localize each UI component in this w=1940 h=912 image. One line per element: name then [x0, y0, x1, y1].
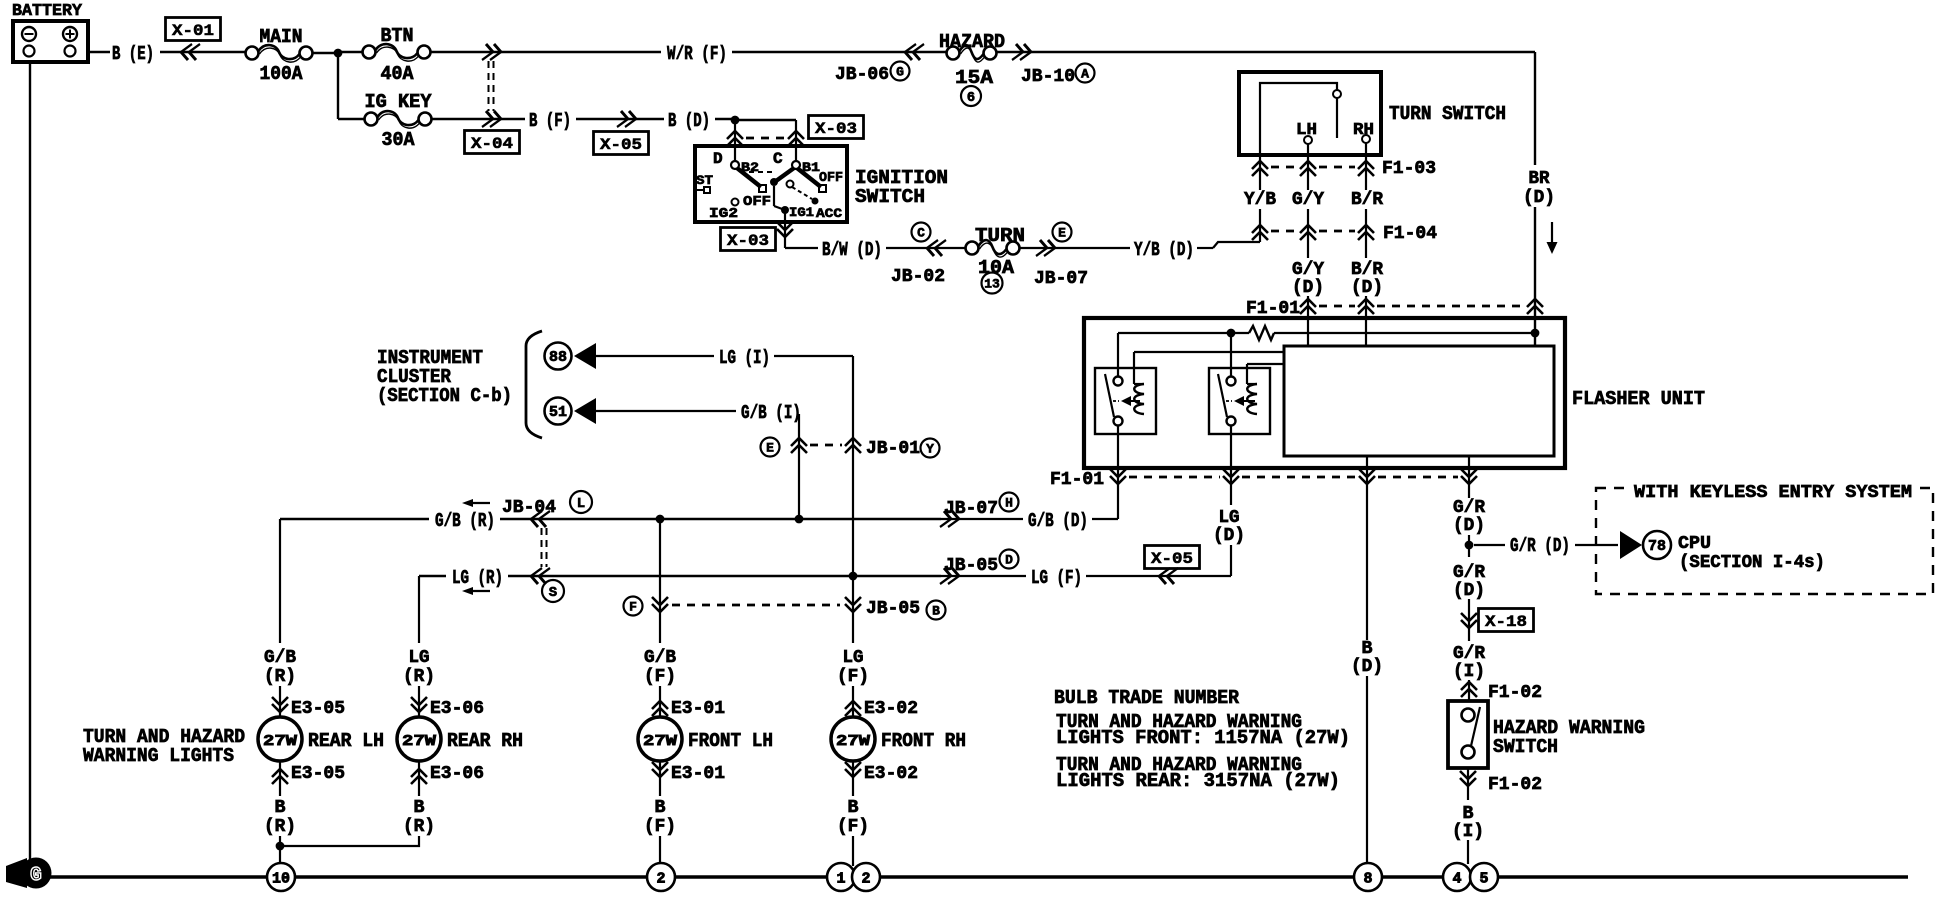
wire LG (R) run	[419, 567, 941, 589]
connector F1-02 bottom	[1460, 768, 1542, 800]
wire labels Y/B G/Y B/R	[1244, 190, 1383, 258]
wire junction to ignition switch pins	[735, 120, 796, 146]
svg-text:(SECTION I-4s): (SECTION I-4s)	[1679, 552, 1825, 573]
svg-text:JB-10: JB-10	[1021, 66, 1075, 87]
svg-text:E3-01: E3-01	[671, 763, 725, 784]
ground point 4	[1443, 863, 1471, 891]
svg-text:IG2: IG2	[709, 206, 738, 222]
connector E3-06 top	[411, 686, 484, 719]
svg-text:2: 2	[656, 870, 665, 887]
wire G/R (D) to CPU	[1474, 535, 1618, 557]
svg-text:F1-02: F1-02	[1488, 682, 1542, 703]
svg-text:27W: 27W	[643, 733, 677, 750]
bulb REAR RH 27W	[397, 717, 523, 761]
svg-text:F1-01: F1-01	[1246, 298, 1300, 319]
svg-text:SWITCH: SWITCH	[1493, 736, 1558, 758]
svg-text:6: 6	[967, 90, 975, 106]
bulb FRONT RH 27W	[831, 717, 966, 761]
svg-text:G/Y: G/Y	[1292, 190, 1324, 210]
wire LG (I)	[596, 347, 853, 574]
svg-text:G/R: G/R	[1453, 563, 1485, 583]
svg-text:E: E	[1058, 226, 1066, 241]
svg-text:100A: 100A	[260, 63, 304, 85]
svg-text:G/R: G/R	[1453, 644, 1485, 664]
svg-text:B (F): B (F)	[529, 110, 571, 132]
svg-text:JB-04: JB-04	[502, 497, 556, 518]
svg-text:(F): (F)	[837, 667, 869, 687]
svg-text:IG KEY: IG KEY	[365, 91, 433, 113]
svg-text:ACC: ACC	[816, 206, 842, 221]
svg-text:(SECTION C-b): (SECTION C-b)	[377, 385, 512, 407]
turn switch S1	[1239, 72, 1381, 155]
cluster pin 51 turn indicator	[545, 398, 597, 425]
circled 6	[961, 86, 981, 106]
svg-text:S: S	[549, 585, 557, 601]
connector X-05	[594, 111, 649, 155]
connector JB-01 E Y	[761, 438, 940, 460]
svg-text:A: A	[1081, 67, 1089, 82]
svg-text:40A: 40A	[381, 63, 415, 85]
svg-text:(R): (R)	[264, 817, 296, 837]
svg-text:LIGHTS REAR: 3157NA (27W): LIGHTS REAR: 3157NA (27W)	[1056, 770, 1340, 792]
wire relay K2 output	[1230, 425, 1232, 505]
ground point 2 front RH	[852, 863, 880, 891]
svg-text:OFF: OFF	[819, 170, 843, 186]
svg-text:88: 88	[549, 349, 567, 366]
wire B lead of REAR LH	[279, 786, 281, 796]
connector E3-02 top	[845, 686, 918, 719]
svg-text:FLASHER UNIT: FLASHER UNIT	[1572, 388, 1705, 410]
svg-text:X-01: X-01	[172, 22, 214, 40]
svg-text:BATTERY: BATTERY	[12, 2, 83, 21]
svg-text:B: B	[932, 604, 940, 619]
svg-text:Y/B (D): Y/B (D)	[1134, 239, 1194, 261]
connector E3-02 bottom	[845, 761, 918, 786]
fuse TURN 10A	[966, 225, 1026, 279]
instrument cluster bracket	[526, 331, 542, 438]
svg-text:1: 1	[836, 870, 845, 887]
wire B (F) front RH	[837, 798, 869, 866]
svg-text:D: D	[713, 150, 723, 168]
wire relay K1 output	[1117, 425, 1119, 519]
svg-text:(D): (D)	[1453, 516, 1485, 536]
svg-text:FRONT RH: FRONT RH	[881, 730, 966, 752]
connector X-01	[166, 18, 221, 61]
svg-text:4: 4	[1452, 870, 1461, 887]
svg-text:X-05: X-05	[1151, 550, 1193, 568]
svg-text:WITH KEYLESS ENTRY SYSTEM: WITH KEYLESS ENTRY SYSTEM	[1634, 482, 1912, 503]
connector X-18	[1461, 609, 1534, 632]
fuse IG KEY 30A	[365, 91, 433, 151]
svg-text:JB-05: JB-05	[944, 555, 998, 576]
svg-text:E3-06: E3-06	[430, 698, 484, 719]
svg-text:E3-02: E3-02	[864, 698, 918, 719]
svg-text:D: D	[1005, 553, 1013, 568]
svg-text:F1-03: F1-03	[1382, 158, 1436, 179]
svg-text:W/R (F): W/R (F)	[667, 43, 727, 65]
svg-text:F1-02: F1-02	[1488, 774, 1542, 795]
svg-text:27W: 27W	[836, 733, 870, 750]
wire BR (D)	[1523, 52, 1555, 346]
svg-text:C: C	[917, 226, 925, 241]
flasher unit U2	[1084, 318, 1565, 468]
connector X-04	[465, 44, 520, 154]
svg-text:G: G	[896, 65, 904, 80]
wire G/B (I)	[596, 402, 801, 517]
svg-text:JB-01: JB-01	[866, 438, 920, 459]
connector JB-10 A	[1012, 44, 1094, 87]
svg-text:B (D): B (D)	[668, 110, 710, 132]
svg-text:B: B	[848, 798, 859, 818]
connector E3-05 top	[272, 686, 345, 719]
svg-text:TURN: TURN	[975, 225, 1025, 247]
keyless entry dashed box	[1596, 482, 1933, 594]
wire MAIN to junction	[312, 52, 337, 54]
wire G/B (R) run	[280, 510, 941, 532]
svg-text:G/B: G/B	[644, 648, 676, 668]
ground G	[6, 858, 52, 889]
svg-text:CPU: CPU	[1678, 533, 1711, 554]
svg-text:(R): (R)	[403, 817, 435, 837]
svg-text:LG: LG	[1219, 508, 1240, 528]
node ignition feed junction	[731, 116, 740, 125]
wire flasher outputs to bottom	[1367, 456, 1469, 640]
svg-text:BTN: BTN	[381, 25, 414, 47]
connector JB-04 L	[462, 491, 592, 567]
svg-text:(R): (R)	[403, 667, 435, 687]
svg-text:E3-02: E3-02	[864, 763, 918, 784]
wire to IG KEY fuse	[338, 53, 364, 119]
relay K1 coil feed	[1134, 351, 1284, 353]
bulb trade number note	[1054, 687, 1350, 792]
connector E3-01 top	[652, 686, 725, 719]
svg-text:E3-05: E3-05	[291, 763, 345, 784]
ignition switch label	[855, 167, 948, 208]
svg-text:LG (R): LG (R)	[452, 567, 503, 589]
ground point 2 front LH	[647, 863, 675, 891]
connector X-05 right	[1145, 546, 1200, 585]
battery	[12, 2, 88, 62]
wire Y/B (D)	[1019, 239, 1260, 261]
wire G/B (R) drop	[264, 519, 296, 687]
connector JB-07 H	[940, 493, 1018, 528]
svg-text:(F): (F)	[644, 667, 676, 687]
svg-text:X-03: X-03	[727, 232, 769, 250]
svg-text:B: B	[1362, 639, 1373, 659]
connector JB-06 G	[835, 44, 924, 85]
svg-text:B: B	[414, 798, 425, 818]
flasher control module box	[1284, 346, 1554, 456]
CPU pin 78	[1620, 531, 1825, 573]
connector F1-04	[1252, 223, 1437, 244]
connector JB-02 C	[891, 223, 946, 288]
wire B (I)	[1452, 804, 1484, 864]
wire G/R (D) flasher output	[1453, 498, 1485, 545]
svg-text:E3-06: E3-06	[430, 763, 484, 784]
connector F1-01 top	[1246, 298, 1543, 319]
svg-text:5: 5	[1479, 870, 1488, 887]
flasher internal feed line	[1118, 329, 1539, 377]
svg-text:(D): (D)	[1351, 278, 1383, 298]
svg-text:Y: Y	[926, 442, 934, 457]
circled 13	[982, 273, 1003, 294]
connector E3-01 bottom	[652, 761, 725, 786]
svg-text:G/Y: G/Y	[1292, 260, 1324, 280]
wire junction to BTN fuse	[338, 51, 362, 53]
wire B (R) rear RH joins rear LH	[280, 798, 435, 846]
svg-text:G/B (D): G/B (D)	[1028, 510, 1088, 532]
wire LG to JB-05	[849, 572, 858, 581]
wire B/R (D)	[1351, 260, 1383, 346]
svg-text:(D): (D)	[1213, 526, 1245, 546]
connector X-03 bottom	[721, 222, 794, 251]
wire G/R (D) to X-18	[1453, 545, 1485, 641]
svg-text:(D): (D)	[1523, 188, 1555, 208]
svg-text:E3-05: E3-05	[291, 698, 345, 719]
svg-text:JB-06: JB-06	[835, 64, 889, 85]
svg-text:JB-02: JB-02	[891, 266, 945, 287]
connector E3-06 bottom	[411, 761, 484, 786]
wire G/B (D)	[941, 510, 1118, 532]
wire battery negative to ground	[29, 62, 31, 861]
wire B lead of FRONT RH	[852, 786, 854, 796]
wire G/B to JB-07	[656, 515, 804, 524]
wire LG (F) drop	[837, 613, 869, 687]
wire G/B (F) drop	[644, 613, 676, 687]
ground point 8	[1354, 863, 1382, 891]
svg-text:8: 8	[1363, 870, 1372, 887]
connector S	[462, 568, 564, 602]
hazard warning switch S2	[1448, 701, 1488, 768]
svg-text:LIGHTS FRONT: 1157NA (27W): LIGHTS FRONT: 1157NA (27W)	[1056, 727, 1350, 749]
svg-text:(R): (R)	[264, 667, 296, 687]
svg-text:LG: LG	[843, 648, 864, 668]
svg-text:JB-07: JB-07	[1034, 268, 1088, 289]
connector F1-03	[1252, 143, 1436, 190]
svg-text:Y/B: Y/B	[1244, 190, 1276, 210]
svg-text:B/R: B/R	[1351, 260, 1383, 280]
relay K2 (RH)	[1209, 364, 1270, 434]
svg-text:27W: 27W	[402, 733, 436, 750]
connector E3-05 bottom	[272, 761, 345, 786]
svg-text:G/B: G/B	[264, 648, 296, 668]
label turn and hazard warning lights	[83, 726, 245, 767]
svg-text:E3-01: E3-01	[671, 698, 725, 719]
svg-text:BULB TRADE NUMBER: BULB TRADE NUMBER	[1054, 687, 1240, 709]
svg-text:SWITCH: SWITCH	[855, 186, 925, 208]
svg-text:L: L	[577, 496, 585, 512]
svg-text:F1-01: F1-01	[1050, 469, 1104, 490]
svg-text:B/R: B/R	[1351, 190, 1383, 210]
fuse MAIN 100A	[246, 26, 313, 85]
svg-text:H: H	[1005, 496, 1013, 511]
svg-text:LG (F): LG (F)	[1031, 567, 1082, 589]
connector F1-01 bottom	[1050, 469, 1477, 490]
fuse HAZARD 15A	[939, 31, 1005, 89]
svg-text:G/B (I): G/B (I)	[741, 402, 801, 424]
svg-text:F: F	[629, 600, 637, 615]
ground bus	[20, 875, 1908, 879]
svg-text:27W: 27W	[263, 733, 297, 750]
svg-text:HAZARD: HAZARD	[939, 31, 1005, 53]
relay K2 coil feed	[1247, 363, 1284, 365]
node rear lamps junction	[276, 842, 285, 851]
wire B (R) rear LH to ground bus	[264, 798, 296, 863]
bulb REAR LH 27W	[258, 717, 384, 761]
svg-text:30A: 30A	[382, 129, 416, 151]
svg-text:13: 13	[984, 277, 1000, 292]
svg-text:10: 10	[272, 870, 290, 887]
ground point 5	[1470, 863, 1498, 891]
wire B/W (D)	[785, 239, 966, 261]
svg-text:E: E	[766, 441, 774, 456]
svg-text:F1-04: F1-04	[1383, 223, 1437, 244]
node battery feed junction	[334, 49, 343, 58]
svg-text:X-04: X-04	[471, 135, 513, 153]
wire B (F) front LH	[644, 798, 676, 863]
svg-text:B: B	[655, 798, 666, 818]
svg-text:REAR RH: REAR RH	[447, 730, 523, 752]
svg-text:C: C	[773, 150, 783, 168]
bulb FRONT LH 27W	[638, 717, 773, 761]
wire W/R (F)	[667, 43, 946, 65]
connector F1-02 top	[1461, 682, 1542, 703]
svg-text:MAIN: MAIN	[260, 26, 303, 48]
wire B lead of FRONT LH	[659, 786, 661, 796]
fuse BTN 40A	[363, 25, 431, 85]
wire hazard feed to BR column	[997, 51, 1535, 53]
svg-text:IG1: IG1	[789, 205, 814, 220]
svg-text:REAR LH: REAR LH	[308, 730, 384, 752]
svg-text:LG (I): LG (I)	[719, 347, 770, 369]
svg-text:(I): (I)	[1452, 822, 1484, 842]
svg-text:(D): (D)	[1351, 657, 1383, 677]
svg-text:OFF: OFF	[743, 194, 771, 210]
svg-text:(D): (D)	[1292, 278, 1324, 298]
ground point 10	[267, 863, 295, 891]
wire B (D) flasher to ground	[1351, 639, 1383, 863]
wires into flasher top	[0, 0, 1, 1]
svg-text:(I): (I)	[1453, 662, 1485, 682]
node G/R branch	[1465, 541, 1474, 550]
wire battery positive B(E)	[88, 43, 245, 65]
wire G/R (I)	[1453, 644, 1485, 701]
wire B lead of REAR RH	[418, 786, 420, 796]
hazard warning switch label	[1493, 717, 1645, 758]
connector X-03 top	[727, 116, 864, 147]
svg-text:FRONT LH: FRONT LH	[688, 730, 773, 752]
wire IG KEY to X-04	[432, 118, 525, 120]
svg-text:ST: ST	[696, 173, 713, 188]
svg-text:G/B (R): G/B (R)	[435, 510, 495, 532]
wire LG (R) drop	[403, 576, 435, 687]
svg-text:G/R (D): G/R (D)	[1510, 535, 1570, 557]
svg-text:B (E): B (E)	[112, 43, 154, 65]
svg-text:X-03: X-03	[815, 120, 857, 138]
svg-text:WARNING LIGHTS: WARNING LIGHTS	[83, 745, 234, 767]
connector JB-05 D	[940, 550, 1018, 585]
svg-text:51: 51	[549, 404, 567, 421]
wire B (D)	[668, 110, 735, 132]
instrument cluster label	[377, 347, 512, 407]
svg-text:TURN SWITCH: TURN SWITCH	[1389, 103, 1506, 125]
svg-text:BR: BR	[1529, 169, 1550, 189]
ground point 1	[827, 863, 855, 891]
svg-text:(F): (F)	[837, 817, 869, 837]
ignition switch U1	[695, 146, 847, 248]
svg-text:G/R: G/R	[1453, 498, 1485, 518]
wire G/Y (D)	[1292, 260, 1324, 346]
svg-text:B: B	[275, 798, 286, 818]
svg-text:(D): (D)	[1453, 581, 1485, 601]
svg-text:X-18: X-18	[1485, 613, 1527, 631]
svg-text:B/W (D): B/W (D)	[822, 239, 882, 261]
svg-text:B: B	[1463, 804, 1474, 824]
wire BTN to X-04	[430, 51, 661, 53]
svg-text:78: 78	[1648, 538, 1666, 555]
connector JB-05 F B	[624, 519, 946, 620]
svg-text:JB-05: JB-05	[866, 598, 920, 619]
svg-text:G: G	[30, 864, 41, 886]
relay K1 (LH)	[1095, 352, 1156, 434]
svg-text:(F): (F)	[644, 817, 676, 837]
svg-text:JB-07: JB-07	[944, 498, 998, 519]
svg-text:LG: LG	[409, 648, 430, 668]
flow arrow down	[1547, 222, 1558, 254]
wire X-05 to flasher LG (D)	[1213, 508, 1245, 576]
svg-text:X-05: X-05	[600, 136, 642, 154]
wire B (F)	[529, 110, 664, 132]
cluster pin 88 turn indicator	[545, 343, 597, 370]
resistor R1	[1249, 326, 1274, 340]
connector JB-07 E	[1034, 223, 1088, 290]
wires from JB-01 down	[0, 0, 1, 1]
svg-text:2: 2	[861, 870, 870, 887]
wire LG (F) to X-05	[941, 567, 1231, 589]
